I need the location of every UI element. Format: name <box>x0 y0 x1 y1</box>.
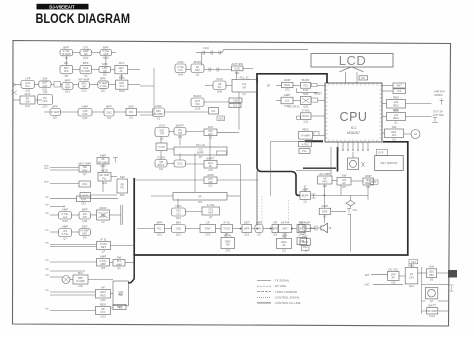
svg-text:D5: D5 <box>65 74 69 78</box>
svg-text:PLL: PLL <box>25 84 30 88</box>
svg-text:SW: SW <box>119 292 124 296</box>
svg-text:IC10: IC10 <box>195 107 201 111</box>
svg-text:MIC AMP: MIC AMP <box>78 161 91 165</box>
svg-text:XF1: XF1 <box>119 84 124 88</box>
svg-text:DET: DET <box>82 224 88 228</box>
svg-text:Q7: Q7 <box>83 172 87 176</box>
svg-text:MIX: MIX <box>303 92 308 96</box>
svg-text:X-TAL: X-TAL <box>61 232 69 236</box>
svg-text:IC8: IC8 <box>208 168 213 172</box>
svg-text:Q12: Q12 <box>303 119 308 123</box>
svg-text:AMP: AMP <box>82 104 89 108</box>
svg-text:D12: D12 <box>177 162 182 166</box>
svg-text:IC2: IC2 <box>198 200 203 204</box>
svg-text:IC8: IC8 <box>78 284 83 288</box>
svg-text:MIC: MIC <box>302 235 308 239</box>
svg-text:BPF: BPF <box>63 45 69 49</box>
svg-text:AMP: AMP <box>100 153 107 157</box>
svg-text:SW: SW <box>282 234 287 238</box>
svg-text:CF1: CF1 <box>411 260 416 264</box>
svg-text:RESET: RESET <box>314 93 323 96</box>
svg-text:X2: X2 <box>157 117 161 121</box>
svg-text:BUFF: BUFF <box>302 194 309 198</box>
svg-text:IC5: IC5 <box>178 68 183 72</box>
svg-text:PLL: PLL <box>302 149 307 153</box>
svg-text:MIX: MIX <box>129 104 134 108</box>
svg-text:D5: D5 <box>83 236 87 240</box>
svg-text:Q7: Q7 <box>63 237 67 241</box>
svg-text:REG: REG <box>393 95 400 99</box>
svg-text:TCXO: TCXO <box>157 155 166 159</box>
svg-text:T/R: T/R <box>43 90 49 94</box>
svg-text:Q15: Q15 <box>103 52 108 56</box>
svg-text:Q44: Q44 <box>82 219 87 223</box>
svg-text:Q7: Q7 <box>102 250 106 254</box>
svg-text:AMP: AMP <box>284 93 291 97</box>
svg-text:LPF: LPF <box>43 99 48 103</box>
svg-text:TXD: TXD <box>45 275 50 277</box>
svg-text:MOD: MOD <box>101 168 109 172</box>
svg-text:DET: DET <box>244 220 250 224</box>
svg-text:D21: D21 <box>244 233 249 237</box>
svg-text:Q8: Q8 <box>103 69 107 73</box>
svg-text:REG: REG <box>393 108 400 112</box>
svg-text:IC10: IC10 <box>62 219 68 223</box>
svg-text:XF1: XF1 <box>118 61 124 65</box>
svg-text:ANT: ANT <box>42 84 48 88</box>
svg-text:Q7: Q7 <box>199 155 203 159</box>
svg-text:Q44: Q44 <box>217 90 222 94</box>
svg-text:CPU: CPU <box>340 110 368 124</box>
svg-text:TXD: TXD <box>45 205 50 207</box>
svg-text:FIL: FIL <box>120 186 124 190</box>
svg-text:ANT: ANT <box>208 211 214 215</box>
svg-text:MIX: MIX <box>195 68 200 72</box>
svg-text:IC3: IC3 <box>302 228 307 232</box>
svg-text:SW: SW <box>120 175 125 179</box>
svg-text:Q44: Q44 <box>178 73 183 77</box>
svg-text:MIX: MIX <box>176 220 181 224</box>
svg-text:CF2: CF2 <box>225 249 230 253</box>
svg-text:AF: AF <box>209 164 213 168</box>
svg-text:BPF: BPF <box>82 207 88 211</box>
svg-text:IC10: IC10 <box>100 315 106 319</box>
svg-text:AF AMP: AF AMP <box>319 172 330 176</box>
svg-text:SHIFT: SHIFT <box>206 156 215 160</box>
svg-text:AF: AF <box>392 276 396 280</box>
svg-text:X2: X2 <box>209 136 213 140</box>
svg-text:IF AMP: IF AMP <box>154 112 163 116</box>
svg-text:MIX: MIX <box>102 62 107 66</box>
svg-text:DET: DET <box>117 305 123 309</box>
svg-text:Q1: Q1 <box>303 199 307 203</box>
svg-text:D5: D5 <box>342 185 346 189</box>
svg-text:XF1: XF1 <box>129 110 134 114</box>
svg-text:FIL: FIL <box>218 85 222 89</box>
svg-text:XF1: XF1 <box>303 83 308 87</box>
svg-text:XF1: XF1 <box>195 102 200 106</box>
svg-text:PLL: PLL <box>157 227 162 231</box>
svg-text:ANT SW: ANT SW <box>231 62 243 66</box>
svg-text:D5: D5 <box>257 233 261 237</box>
svg-text:IF IC: IF IC <box>224 220 231 224</box>
svg-text:LPF: LPF <box>25 76 31 80</box>
svg-text:X-TAL: X-TAL <box>302 109 311 113</box>
svg-text:CHG: CHG <box>364 284 369 287</box>
svg-text:REG: REG <box>302 240 308 244</box>
svg-text:IC3: IC3 <box>397 89 402 93</box>
svg-text:CF: CF <box>206 220 210 224</box>
svg-text:DJ-V5E/EA/T: DJ-V5E/EA/T <box>49 5 75 10</box>
svg-text:AMP: AMP <box>100 254 107 258</box>
svg-text:RF AMP: RF AMP <box>427 309 437 313</box>
svg-text:RF: RF <box>64 61 68 65</box>
svg-text:IC2: IC2 <box>282 249 287 253</box>
svg-text:PLL IC: PLL IC <box>196 143 206 147</box>
svg-text:IF IC: IF IC <box>100 237 107 241</box>
svg-text:Q7: Q7 <box>209 215 213 219</box>
svg-text:TCXO: TCXO <box>223 227 230 231</box>
svg-text:IF AMP: IF AMP <box>301 133 310 137</box>
svg-text:IC2: IC2 <box>392 138 397 142</box>
svg-text:Q1: Q1 <box>196 73 200 77</box>
svg-text:L21: L21 <box>176 212 181 216</box>
svg-text:REG: REG <box>100 293 106 297</box>
svg-text:CF2: CF2 <box>81 202 86 206</box>
svg-text:IC10: IC10 <box>81 88 87 92</box>
svg-text:BPF: BPF <box>100 77 106 81</box>
svg-text:D12: D12 <box>83 112 88 116</box>
svg-text:IC5: IC5 <box>83 215 88 219</box>
svg-text:Q12: Q12 <box>409 284 414 288</box>
svg-text:Q12: Q12 <box>83 116 88 120</box>
svg-text:TXD: TXD <box>45 260 50 262</box>
svg-text:VCO: VCO <box>82 193 88 197</box>
svg-text:FIL: FIL <box>212 109 216 113</box>
svg-text:BPF: BPF <box>106 104 112 108</box>
svg-text:D21: D21 <box>120 193 125 197</box>
svg-text:Q15: Q15 <box>81 197 86 201</box>
svg-text:SW: SW <box>392 125 397 129</box>
svg-text:IC3: IC3 <box>233 104 238 108</box>
svg-text:OSC: OSC <box>175 204 182 208</box>
svg-text:TXD: TXD <box>45 213 50 215</box>
svg-text:VOL: VOL <box>353 209 358 212</box>
svg-text:PLL IC: PLL IC <box>240 75 250 79</box>
svg-text:IC8: IC8 <box>391 281 396 285</box>
svg-text:BUFF: BUFF <box>176 123 184 127</box>
svg-text:RF AMP: RF AMP <box>78 77 89 81</box>
svg-text:Q31: Q31 <box>25 104 30 108</box>
svg-text:M38267: M38267 <box>347 131 360 135</box>
svg-text:FIL: FIL <box>361 76 365 80</box>
svg-text:CF1: CF1 <box>101 310 106 314</box>
svg-text:EXT MIC: EXT MIC <box>434 113 445 117</box>
svg-text:SP/MIC: SP/MIC <box>434 93 443 97</box>
svg-text:SW: SW <box>208 180 213 184</box>
svg-text:BUFF: BUFF <box>197 151 204 155</box>
svg-text:SW: SW <box>42 77 47 81</box>
svg-text:4.5V 3R 5C: 4.5V 3R 5C <box>287 106 300 109</box>
svg-text:Q7: Q7 <box>242 92 246 96</box>
svg-text:SW: SW <box>429 265 434 269</box>
svg-text:IC2: IC2 <box>129 116 134 120</box>
svg-text:OSC: OSC <box>155 104 162 108</box>
svg-text:AMP: AMP <box>116 262 122 266</box>
svg-text:AF: AF <box>342 181 346 185</box>
svg-text:AMP: AMP <box>365 174 372 178</box>
svg-text:MOD: MOD <box>100 206 108 210</box>
svg-text:IF AMP: IF AMP <box>62 52 71 56</box>
svg-text:SW: SW <box>342 173 347 177</box>
svg-text:APC: APC <box>322 180 327 184</box>
svg-text:IC2: IC2 <box>273 233 278 237</box>
svg-text:TXD: TXD <box>45 197 50 199</box>
svg-text:DRV: DRV <box>82 168 88 172</box>
svg-text:AMP: AMP <box>322 204 329 208</box>
svg-text:IC5: IC5 <box>178 131 183 135</box>
svg-text:IC8: IC8 <box>323 184 328 188</box>
svg-text:BATT: BATT <box>428 304 436 308</box>
svg-text:C201: C201 <box>203 47 209 50</box>
svg-text:D21: D21 <box>235 71 240 75</box>
svg-text:BPF: BPF <box>65 78 71 82</box>
svg-text:X-TAL: X-TAL <box>224 233 233 237</box>
svg-text:TXD: TXD <box>45 269 50 271</box>
svg-text:D5: D5 <box>367 185 371 189</box>
svg-text:DRV: DRV <box>205 227 211 231</box>
svg-text:BUFF: BUFF <box>194 94 202 98</box>
svg-text:D12: D12 <box>82 182 87 186</box>
svg-text:BPF: BPF <box>52 104 58 108</box>
svg-text:XF1: XF1 <box>392 133 397 137</box>
svg-text:CF1: CF1 <box>83 45 89 49</box>
svg-text:Q31: Q31 <box>53 116 58 120</box>
svg-text:ANT: ANT <box>25 92 31 96</box>
svg-text:IF AMP: IF AMP <box>51 110 60 114</box>
svg-text:ANT: ANT <box>282 227 288 231</box>
svg-text:BPF: BPF <box>244 227 249 231</box>
svg-text:MIC: MIC <box>429 273 434 277</box>
svg-text:OSC: OSC <box>218 116 224 120</box>
svg-text:CF2: CF2 <box>205 233 210 237</box>
svg-text:L21: L21 <box>63 215 68 219</box>
svg-text:BUFF: BUFF <box>302 78 310 82</box>
svg-text:AMP: AMP <box>256 220 263 224</box>
svg-text:Q7: Q7 <box>323 215 327 219</box>
svg-text:D21: D21 <box>83 56 88 60</box>
svg-text:REG: REG <box>100 302 107 306</box>
svg-text:D21: D21 <box>65 90 70 94</box>
svg-text:BPF: BPF <box>103 45 109 49</box>
svg-text:: RX LINE: : RX LINE <box>274 284 287 288</box>
svg-text:10 R: 10 R <box>378 151 384 155</box>
svg-text:T/R: T/R <box>160 132 164 136</box>
svg-text:MOD: MOD <box>44 168 50 170</box>
svg-text:MOD: MOD <box>44 182 50 184</box>
svg-text:X2: X2 <box>101 220 105 224</box>
svg-text:AMP: AMP <box>100 262 106 266</box>
svg-text:TXD: TXD <box>45 243 50 245</box>
svg-text:BPF: BPF <box>371 180 376 184</box>
svg-text:TCXO: TCXO <box>158 145 165 149</box>
svg-text:LPF: LPF <box>208 132 213 136</box>
svg-text:IC8: IC8 <box>101 266 106 270</box>
svg-text:AF: AF <box>282 243 286 247</box>
svg-text:OSC: OSC <box>177 60 184 64</box>
svg-text:BUFF: BUFF <box>194 60 202 64</box>
svg-text:EXT: EXT <box>365 274 370 277</box>
svg-text:IC2: IC2 <box>107 116 112 120</box>
svg-text:CF2: CF2 <box>43 105 48 109</box>
svg-text:REG: REG <box>284 83 290 87</box>
svg-text:SW: SW <box>117 255 122 259</box>
svg-text:IC2: IC2 <box>159 167 164 171</box>
svg-text:ANT: ANT <box>397 84 403 88</box>
svg-text:OSC: OSC <box>176 227 182 231</box>
svg-text:AF: AF <box>198 194 202 198</box>
svg-text:AMP: AMP <box>207 173 214 177</box>
svg-text:VCO: VCO <box>159 123 166 127</box>
svg-text:TXD: TXD <box>45 230 50 232</box>
svg-text:REG: REG <box>393 116 399 120</box>
svg-text:X-TAL: X-TAL <box>301 142 309 146</box>
svg-text:REG: REG <box>393 103 399 107</box>
svg-text:5R: 5R <box>226 243 229 247</box>
svg-text:AMP: AMP <box>65 86 71 90</box>
svg-text:AF: AF <box>120 69 124 73</box>
svg-text:MIC: MIC <box>82 232 87 236</box>
svg-text:TXD: TXD <box>45 309 50 311</box>
svg-text:IC10: IC10 <box>429 314 435 318</box>
svg-text:Q1: Q1 <box>117 266 121 270</box>
svg-text:VCO: VCO <box>234 67 240 71</box>
svg-text:LPF: LPF <box>64 69 69 73</box>
svg-text:MIC: MIC <box>78 271 84 275</box>
svg-text:X-TAL: X-TAL <box>207 203 216 207</box>
svg-text:AMP: AMP <box>284 78 291 82</box>
svg-text:SW: SW <box>25 100 30 104</box>
svg-text:AF PA: AF PA <box>281 220 289 224</box>
svg-text:: TX/RX COMMON: : TX/RX COMMON <box>274 290 298 294</box>
svg-text:AMP: AMP <box>62 207 69 211</box>
svg-text:BUFF: BUFF <box>302 114 309 118</box>
svg-text:AMP: AMP <box>62 224 69 228</box>
svg-text:CF1: CF1 <box>409 275 414 279</box>
svg-text:REG: REG <box>302 127 309 131</box>
svg-text:BPF: BPF <box>83 61 89 65</box>
svg-text:LPF: LPF <box>208 125 214 129</box>
svg-text:Q12: Q12 <box>101 88 106 92</box>
svg-text:: CONTROL DC LINE: : CONTROL DC LINE <box>274 301 301 305</box>
svg-text:BLOCK DIAGRAM: BLOCK DIAGRAM <box>36 11 131 26</box>
svg-text:VHF ANT: VHF ANT <box>434 90 445 94</box>
svg-text:IC2: IC2 <box>208 184 213 188</box>
svg-text:5R: 5R <box>82 85 85 89</box>
svg-text:D5: D5 <box>430 278 434 282</box>
svg-text:BPF: BPF <box>272 227 277 231</box>
svg-text:DRV: DRV <box>322 209 328 213</box>
svg-text:SP AMP: SP AMP <box>299 220 310 224</box>
svg-text:VCO: VCO <box>216 77 223 81</box>
svg-text:Q12: Q12 <box>157 233 162 237</box>
svg-text:DC-DC: DC-DC <box>388 267 398 271</box>
svg-text:RF AMP: RF AMP <box>98 160 108 164</box>
svg-text:LCD: LCD <box>339 53 367 68</box>
svg-text:CF2: CF2 <box>285 88 290 92</box>
svg-text:L21: L21 <box>285 99 290 103</box>
svg-text:OSC: OSC <box>106 110 112 114</box>
svg-text:Q7: Q7 <box>430 299 434 303</box>
svg-text:IC10: IC10 <box>119 89 125 93</box>
svg-text:IC1: IC1 <box>351 126 357 130</box>
svg-text:5R: 5R <box>243 85 246 89</box>
svg-text:DET: DET <box>101 245 107 249</box>
svg-text:5R: 5R <box>267 84 270 87</box>
svg-text:Q12: Q12 <box>176 233 181 237</box>
svg-text:IF AMP: IF AMP <box>76 279 85 283</box>
svg-text:OSC: OSC <box>233 98 239 102</box>
svg-text:KEY MATRIX: KEY MATRIX <box>381 161 398 165</box>
svg-text:IF AMP: IF AMP <box>82 69 91 73</box>
svg-text:: CONTROL SIGNAL: : CONTROL SIGNAL <box>274 295 301 299</box>
svg-text:: TX SIGNAL: : TX SIGNAL <box>274 279 291 283</box>
svg-text:BPF: BPF <box>157 220 163 224</box>
svg-text:X-TAL: X-TAL <box>100 84 108 88</box>
svg-text:BUFF: BUFF <box>158 163 165 167</box>
svg-text:AF: AF <box>101 285 105 289</box>
svg-text:PLL: PLL <box>102 176 107 180</box>
svg-text:5R: 5R <box>84 52 87 56</box>
svg-text:TXD: TXD <box>45 290 50 292</box>
